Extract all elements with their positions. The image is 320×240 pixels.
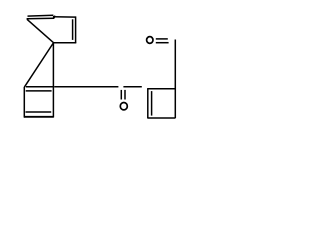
aldehyde C=O lower line bbox=[156, 42, 169, 44]
bond C3=C4 outer line (right side of pentagon) bbox=[75, 16, 77, 42]
bond C7=C6 top edge outer of lower square bbox=[26, 86, 54, 88]
bond C7=C6 top edge inner bbox=[26, 90, 52, 92]
bond C1=C2 lower line bbox=[27, 17, 54, 20]
bond C1=C2 upper line (cyclopentadiene top double bond) bbox=[28, 14, 54, 17]
right cyclobutene right side plus chain up to aldehyde carbon bbox=[174, 40, 176, 119]
right cyclobutene left side inner double bond line bbox=[151, 91, 153, 116]
right cyclobutene bottom edge bbox=[147, 117, 175, 119]
bond C5-C7 diagonal to square top-left bbox=[24, 43, 53, 87]
bond C2-C3 top single edge bbox=[53, 16, 76, 18]
bond C5-C6 vertical through spiro down to square bbox=[52, 43, 54, 118]
bond C1=C2 lower line end hook bbox=[53, 16, 56, 19]
bond C8=C9 bottom edge inner bbox=[26, 111, 52, 113]
ketone C10=O right line bbox=[124, 90, 126, 100]
aldehyde C=O upper line bbox=[156, 38, 168, 40]
ketone C10=O left line bbox=[120, 90, 122, 100]
bond C3=C4 inner line bbox=[72, 19, 74, 40]
bond C8=C9 bottom edge outer of lower square bbox=[24, 116, 54, 118]
wire chain bond C10-C11 right segment bbox=[123, 86, 141, 88]
aldehyde oxygen atom label O bbox=[147, 37, 153, 44]
right cyclobutene top edge bbox=[147, 88, 175, 90]
bond C7-C8 left side of lower square bbox=[23, 87, 25, 118]
bond C5-C1 apex diagonal bbox=[27, 19, 54, 43]
right cyclobutene left side outer bbox=[147, 88, 149, 118]
ketone oxygen atom label O bbox=[120, 103, 127, 110]
wire chain bond C6-C10 left segment bbox=[54, 86, 118, 88]
bond C4-C5 bottom edge of pentagon bbox=[53, 42, 76, 44]
